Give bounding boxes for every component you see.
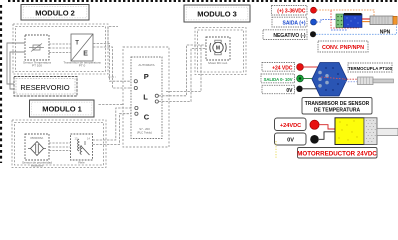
wire PLC out 2 to motor	[159, 49, 207, 102]
transmisor hexagon	[312, 63, 347, 97]
wire positive orange dashed	[317, 10, 375, 16]
reservoir	[14, 77, 77, 97]
label MOTORREDUCTOR 24VDC	[297, 148, 377, 159]
svg-text:inductivo: inductivo	[31, 164, 43, 168]
svg-text:MODULO 3: MODULO 3	[197, 10, 237, 19]
label CONV. PNP/NPN	[318, 41, 368, 52]
PLC input terminals	[134, 80, 138, 116]
wire PLC out 1 to motor	[159, 45, 207, 96]
svg-text:TRANSMISOR DE SENSOR: TRANSMISOR DE SENSOR	[305, 101, 370, 107]
gearbox	[364, 118, 377, 145]
terminal black	[310, 31, 316, 37]
wire black mid	[303, 88, 318, 90]
svg-text:TERMOCUPLA PT100: TERMOCUPLA PT100	[348, 66, 393, 71]
svg-text:M: M	[216, 46, 220, 52]
svg-text:DE TEMPERATURA: DE TEMPERATURA	[314, 108, 361, 114]
svg-text:SAIDA (+): SAIDA (+)	[282, 21, 305, 27]
top dotted border	[8, 0, 398, 2]
wire stub mid	[99, 104, 125, 106]
svg-text:SALIDA 0- 10V: SALIDA 0- 10V	[264, 77, 293, 82]
sensor cable	[362, 18, 370, 20]
wire transmisor out 1 to PLC	[93, 44, 134, 82]
label NEGATIVO (-)	[263, 30, 307, 40]
module 3 container	[195, 28, 246, 75]
svg-text:Rele: Rele	[78, 161, 85, 165]
svg-text:+24VDC: +24VDC	[280, 123, 301, 129]
wire red dashed to converter	[331, 11, 359, 29]
svg-text:RESERVORIO: RESERVORIO	[20, 83, 69, 92]
thermocouple probe	[358, 77, 394, 85]
svg-text:0V: 0V	[287, 138, 294, 144]
terminal blue	[311, 19, 317, 25]
svg-text:MODULO 2: MODULO 2	[35, 9, 75, 18]
svg-text:0V: 0V	[286, 88, 293, 94]
converter PNP/NPN	[336, 13, 362, 28]
label +24VDC bottom	[275, 118, 307, 131]
label +24 VDC	[262, 63, 295, 72]
wire stub top	[108, 27, 118, 44]
wire stub corner	[108, 76, 116, 78]
proximity sensor box	[22, 134, 52, 168]
PLC outer dashed box	[123, 47, 169, 147]
wire negative dashed	[316, 25, 397, 35]
relay box	[71, 134, 93, 165]
yellow dotted wire	[275, 141, 277, 158]
wires proximity sensor to relay	[49, 143, 71, 151]
module 3 label box	[184, 5, 250, 22]
label TRANSMISOR DE SENSOR DE TEMPERATURA	[302, 98, 372, 115]
svg-text:L: L	[143, 92, 148, 101]
wire green mid	[303, 78, 312, 80]
transmisor de temperatura T/E box	[63, 34, 100, 68]
wire hexagon to probe blue	[345, 81, 358, 83]
svg-text:NPN: NPN	[380, 30, 391, 36]
motor M box	[206, 37, 230, 65]
svg-text:P: P	[144, 72, 149, 81]
svg-text:Motor DC red.: Motor DC red.	[208, 61, 228, 65]
wire red bottom	[319, 125, 335, 129]
svg-text:E: E	[83, 50, 88, 57]
terminal red	[311, 7, 317, 13]
wire sensor left 2	[10, 52, 25, 89]
PLC box U1	[131, 57, 162, 139]
label SALIDA 0-10V	[261, 74, 295, 83]
wire transmisor out 2 to PLC	[93, 47, 134, 88]
wire relay out 2 to PLC	[93, 114, 135, 145]
svg-text:+24 VDC: +24 VDC	[272, 65, 293, 71]
svg-text:(PLC Twido): (PLC Twido)	[137, 131, 152, 135]
wires sensor to transmisor	[49, 44, 71, 53]
terminal red mid	[297, 64, 304, 71]
wire motor return	[166, 45, 201, 92]
wire across hexagon	[321, 77, 344, 79]
svg-text:PROXIM.: PROXIM.	[30, 136, 43, 140]
terminal black bottom	[310, 135, 319, 144]
wire hexagon to probe	[344, 78, 359, 80]
svg-text:MODULO 1: MODULO 1	[42, 105, 82, 114]
sensor temperatura PT100 box	[23, 35, 51, 68]
shaft	[377, 128, 398, 135]
module 1 container	[12, 120, 106, 168]
motor yellow body	[335, 118, 364, 145]
module 2 label box	[21, 5, 89, 21]
svg-text:T: T	[75, 40, 79, 46]
label TERMOCUPLA PT100	[348, 63, 393, 72]
svg-text:NEGATIVO (-): NEGATIVO (-)	[273, 33, 305, 39]
svg-text:CONV. PNP/NPN: CONV. PNP/NPN	[322, 45, 364, 51]
wire sensor left 1	[7, 43, 25, 84]
svg-text:(+) 3-36VDC: (+) 3-36VDC	[277, 9, 306, 15]
label 0V	[262, 85, 295, 94]
terminal red bottom	[310, 120, 319, 129]
PLC output terminals	[155, 94, 158, 103]
svg-text:PT 0: PT 0	[79, 64, 86, 68]
module 1 label box	[30, 100, 95, 117]
svg-text:MOTORREDUCTOR 24VDC: MOTORREDUCTOR 24VDC	[297, 150, 377, 157]
wire blue dashed under converter	[331, 29, 347, 31]
left dashed border	[0, 5, 2, 163]
svg-text:AUTOMATA: AUTOMATA	[138, 63, 154, 67]
module 2 container	[13, 24, 108, 74]
label (+) 3-36VDC	[272, 6, 308, 16]
wire red mid	[303, 66, 317, 68]
wire relay out 1 to PLC	[93, 108, 135, 140]
terminal green	[297, 75, 304, 82]
wire black bottom	[319, 132, 335, 140]
wire blue dashed to converter	[317, 20, 337, 23]
terminal black mid	[296, 86, 302, 92]
label 0V bottom	[275, 133, 307, 145]
NPN sensor	[370, 16, 397, 25]
label SAIDA (+)	[272, 17, 307, 27]
svg-text:PT 100: PT 100	[32, 64, 42, 68]
svg-text:C: C	[144, 113, 150, 122]
